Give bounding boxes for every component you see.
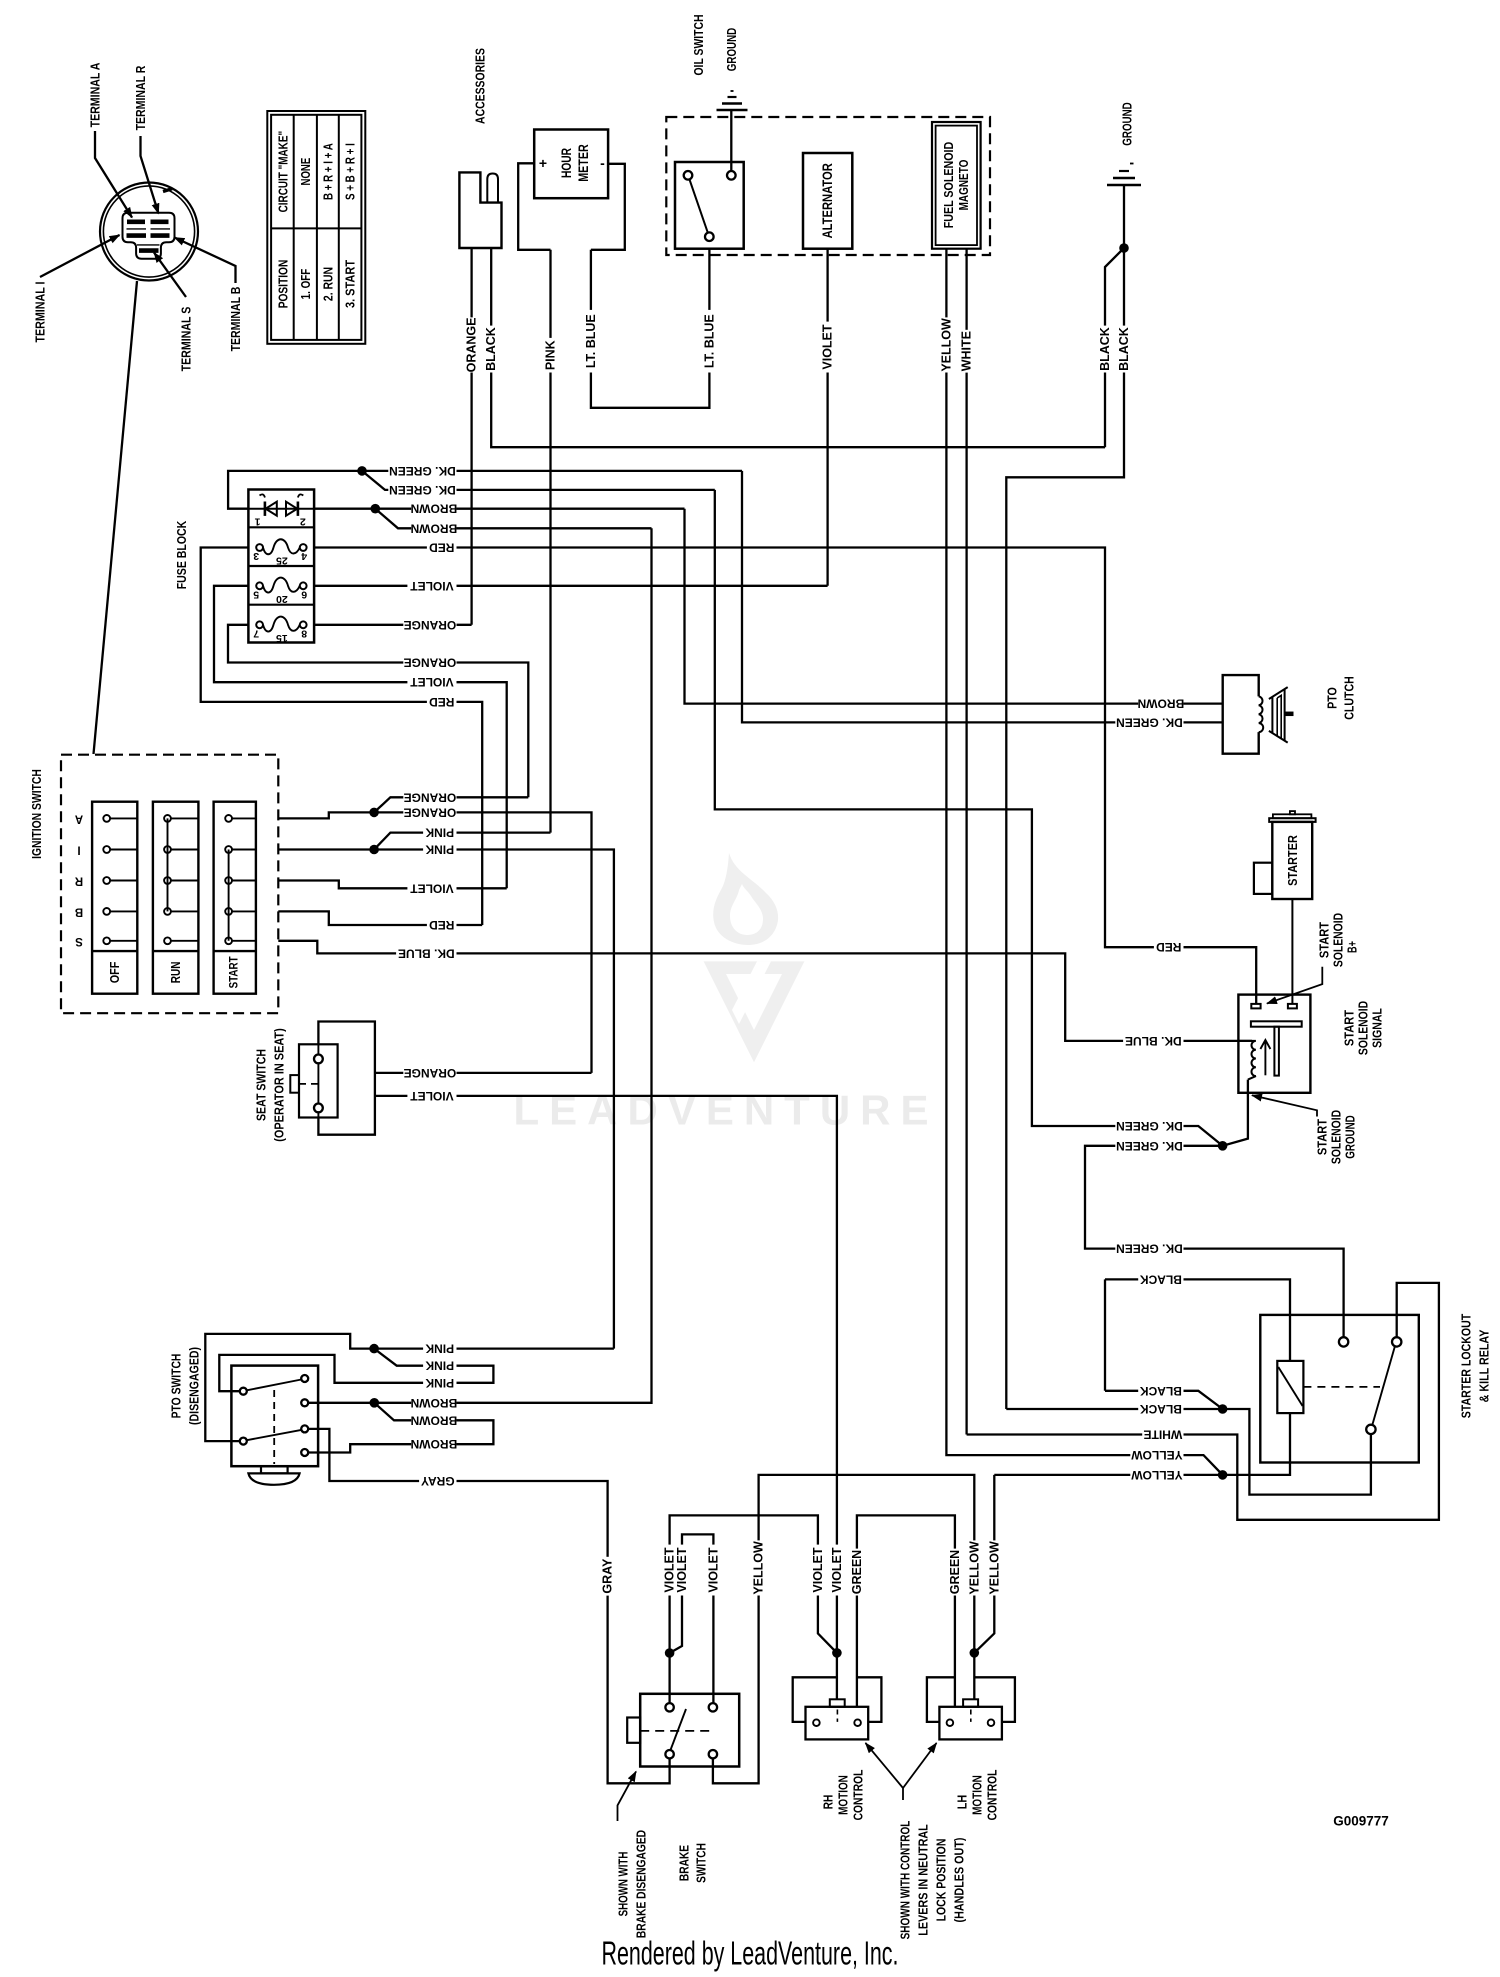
wire VIOLET brake branch U to top-right terminal (670, 1534, 714, 1703)
svg-text:MOTION: MOTION (836, 1775, 851, 1815)
svg-text:DK. GREEN: DK. GREEN (389, 464, 456, 478)
svg-text:ORANGE: ORANGE (465, 317, 479, 372)
wire PINK pto bottom-left terminal loop (205, 1334, 614, 1441)
relay switch bottom terminal (1366, 1425, 1375, 1434)
wire YELLOW LH branch (974, 1475, 994, 1653)
svg-text:DK. GREEN: DK. GREEN (1116, 1119, 1183, 1133)
svg-text:8: 8 (301, 627, 307, 639)
svg-text:WHITE: WHITE (1144, 1428, 1183, 1442)
terminal B blade (151, 233, 170, 238)
svg-text:START: START (1317, 922, 1332, 958)
svg-text:CONTROL: CONTROL (851, 1770, 866, 1821)
wire solenoid coil to dk green ground dot (1223, 1080, 1248, 1146)
svg-text:-: - (600, 155, 605, 171)
svg-text:STARTER LOCKOUT: STARTER LOCKOUT (1459, 1314, 1474, 1419)
relay dashed linkage (1303, 1386, 1380, 1388)
svg-text:PINK: PINK (544, 340, 558, 370)
pto clutch plate (1269, 687, 1288, 699)
svg-text:GRAY: GRAY (601, 1558, 615, 1594)
wire VIOLET brake top-left to RH motion control branch (670, 1515, 837, 1703)
wire BROWN branch row2 U (308, 1403, 493, 1453)
oil switch box (675, 162, 744, 249)
wire BLACK row2 (1104, 1279, 1106, 1390)
svg-text:STARTER: STARTER (1285, 835, 1300, 886)
terminal A blade (127, 220, 145, 225)
start solenoid box (1238, 995, 1310, 1093)
svg-text:BLACK: BLACK (1140, 1402, 1182, 1416)
svg-text:DK. GREEN: DK. GREEN (389, 483, 456, 497)
wire oil switch to ground (730, 110, 732, 171)
svg-text:RED: RED (429, 695, 455, 709)
wire ORANGE fuse8 to accessories (314, 624, 472, 626)
terminal R blade (151, 220, 169, 225)
solenoid coil (1238, 1041, 1256, 1080)
wire DK. GREEN branch row2 (362, 471, 715, 490)
engine module dashed outline (666, 117, 990, 255)
fuse 15 (pins 7-8) (256, 621, 263, 628)
table CIRCUIT MAKE / POSITION (267, 111, 365, 344)
pto switch blades (247, 1380, 301, 1391)
alternator box (803, 153, 852, 249)
svg-text:WHITE: WHITE (960, 331, 974, 371)
fuse block box (248, 490, 314, 643)
svg-text:B+: B+ (1345, 941, 1360, 953)
svg-text:1. OFF: 1. OFF (299, 268, 313, 299)
svg-text:4: 4 (301, 550, 307, 562)
svg-text:Rendered by LeadVenture, Inc.: Rendered by LeadVenture, Inc. (602, 1935, 899, 1972)
solenoid terminal left (1251, 1004, 1260, 1009)
wire BROWN branch row2 (375, 509, 651, 529)
solenoid arrow (1264, 1042, 1266, 1075)
wire BLACK accessories to engine ground (491, 248, 1105, 447)
wire PINK hour meter to ignition (549, 250, 551, 833)
svg-text:ORANGE: ORANGE (404, 1066, 457, 1080)
svg-text:SOLENOID: SOLENOID (1329, 1110, 1344, 1164)
junction dot violet brake (665, 1648, 675, 1658)
engine ground symbol (1107, 184, 1141, 187)
seat switch terminals (314, 1055, 323, 1064)
svg-text:VIOLET: VIOLET (410, 675, 454, 689)
svg-text:SEAT SWITCH: SEAT SWITCH (254, 1049, 269, 1121)
svg-text:OIL SWITCH: OIL SWITCH (691, 14, 706, 75)
svg-text:DK. BLUE: DK. BLUE (398, 946, 455, 960)
svg-text:BROWN: BROWN (411, 1396, 458, 1410)
diode 2 (297, 502, 300, 516)
svg-text:HOUR: HOUR (559, 148, 574, 178)
svg-text:GROUND: GROUND (1120, 102, 1135, 145)
solenoid T plunger (1251, 1021, 1302, 1026)
svg-text:GROUND: GROUND (1343, 1115, 1358, 1158)
diode row wire (248, 508, 314, 510)
seat switch inner box (299, 1044, 338, 1117)
svg-text:BROWN: BROWN (411, 521, 458, 535)
svg-text:START: START (1315, 1119, 1330, 1155)
relay coil (1277, 1361, 1303, 1413)
LH motion control bracket (927, 1677, 955, 1722)
svg-text:PINK: PINK (425, 1376, 454, 1390)
junction dot orange (369, 808, 379, 818)
svg-text:LEADVENTURE: LEADVENTURE (513, 1087, 938, 1134)
svg-text:LEVERS IN NEUTRAL: LEVERS IN NEUTRAL (916, 1824, 931, 1936)
wire ground stem (1123, 185, 1125, 248)
accessories bullet terminal (487, 174, 498, 203)
junction dot pink (369, 845, 379, 855)
junction dot brown (371, 504, 381, 514)
svg-text:SWITCH: SWITCH (694, 1843, 709, 1883)
svg-text:CLUTCH: CLUTCH (1342, 676, 1357, 719)
svg-text:6: 6 (301, 588, 307, 600)
svg-text:CONTROL: CONTROL (985, 1770, 1000, 1821)
svg-text:PINK: PINK (425, 843, 454, 857)
junction dot brown pto (370, 1398, 380, 1408)
svg-text:(OPERATOR IN SEAT): (OPERATOR IN SEAT) (272, 1028, 287, 1142)
wire RED fuse3 to ignition B red (201, 548, 483, 926)
LH motion control switch box (939, 1707, 1002, 1740)
svg-text:A: A (75, 812, 83, 824)
wire VIOLET fuse5 to ignition R violet (214, 586, 507, 889)
wire BLACK ground to accessories black (1105, 248, 1124, 447)
svg-text:PTO: PTO (1325, 687, 1340, 709)
svg-text:R: R (74, 875, 83, 887)
svg-text:NONE: NONE (299, 158, 313, 186)
pto switch left terminals (240, 1388, 247, 1395)
wire VIOLET seat switch to RH motion control (375, 1096, 837, 1699)
junction dot violet RH (832, 1648, 842, 1658)
svg-text:BLACK: BLACK (1117, 327, 1131, 371)
wire BLACK ground to relay black net (1006, 248, 1124, 1409)
hour meter box (534, 130, 608, 199)
svg-text:BROWN: BROWN (411, 502, 458, 516)
svg-text:LT. BLUE: LT. BLUE (702, 314, 716, 368)
svg-text:DK. GREEN: DK. GREEN (1116, 1139, 1183, 1153)
wire DK. GREEN solenoid ground to relay terminal (1085, 1146, 1344, 1337)
svg-text:VIOLET: VIOLET (410, 881, 454, 895)
seat switch plunger tab (290, 1075, 299, 1093)
wire PINK ignition I to pto switch (278, 850, 614, 1349)
svg-text:LT. BLUE: LT. BLUE (584, 314, 598, 368)
svg-text:CIRCUIT "MAKE": CIRCUIT "MAKE" (277, 131, 291, 213)
svg-text:GRAY: GRAY (421, 1474, 455, 1488)
diode 1 (264, 502, 267, 516)
junction dot ground (1119, 243, 1129, 253)
seat switch outer outline (318, 1022, 375, 1135)
svg-text:YELLOW: YELLOW (987, 1541, 1001, 1595)
svg-text:S + B + R + I: S + B + R + I (343, 143, 357, 200)
svg-text:15: 15 (276, 632, 288, 644)
wire BLACK relay coil top (1105, 1279, 1290, 1361)
svg-text:TERMINAL I: TERMINAL I (33, 281, 48, 342)
svg-text:YELLOW: YELLOW (752, 1541, 766, 1595)
svg-text:YELLOW: YELLOW (1131, 1448, 1183, 1462)
svg-text:YELLOW: YELLOW (967, 1541, 981, 1595)
brake switch blade (671, 1709, 687, 1750)
svg-text:TERMINAL A: TERMINAL A (88, 62, 103, 127)
seat switch terminal line (317, 1044, 319, 1117)
seat switch dashed actuator line (299, 1083, 318, 1085)
relay box (1260, 1315, 1419, 1463)
wire VIOLET alternator to fuse 6 (826, 249, 828, 586)
relay switch blade (1372, 1346, 1395, 1425)
wire GREEN RH to LH motion control (857, 1515, 955, 1706)
svg-text:POSITION: POSITION (277, 260, 291, 309)
wire VIOLET fuse6 to alternator (314, 585, 828, 587)
svg-text:TERMINAL B: TERMINAL B (228, 287, 243, 352)
svg-text:S: S (75, 935, 83, 947)
brake switch terminals (665, 1703, 673, 1711)
svg-text:VIOLET: VIOLET (706, 1547, 720, 1593)
svg-text:I: I (77, 844, 80, 856)
wire starter to solenoid (1291, 899, 1293, 1004)
wire PINK branch row2 U (219, 1349, 493, 1392)
relay switch top terminal (1392, 1337, 1401, 1346)
RH motion control bracket (793, 1677, 837, 1722)
oil switch terminals (684, 171, 693, 180)
wire ORANGE branch upper (374, 797, 528, 812)
wire YELLOW brake bottom-right to LH motion control (713, 1475, 974, 1783)
svg-text:DK. BLUE: DK. BLUE (1125, 1034, 1182, 1048)
svg-text:LOCK POSITION: LOCK POSITION (934, 1839, 949, 1922)
svg-text:PINK: PINK (425, 1359, 454, 1373)
svg-text:IGNITION SWITCH: IGNITION SWITCH (29, 769, 44, 859)
svg-text:PTO SWITCH: PTO SWITCH (169, 1354, 184, 1419)
RH motion control switch box (806, 1707, 869, 1740)
leader from connector to ignition switch box (94, 281, 138, 754)
svg-text:BROWN: BROWN (411, 1413, 458, 1427)
wire DK. BLUE ignition S to start solenoid coil (278, 941, 1252, 1041)
junction dot black (1218, 1404, 1228, 1414)
svg-text:VIOLET: VIOLET (410, 579, 454, 593)
wire YELLOW row2 to relay coil bottom (994, 1413, 1290, 1475)
svg-text:SIGNAL: SIGNAL (1370, 1008, 1385, 1048)
ignition position OFF (92, 802, 137, 994)
svg-text:GREEN: GREEN (850, 1550, 864, 1594)
relay terminal dk green (1339, 1337, 1348, 1346)
ignition switch dashed box (61, 755, 278, 1014)
svg-text:ACCESSORIES: ACCESSORIES (473, 48, 488, 124)
terminal S blade (139, 248, 159, 253)
svg-text:G009777: G009777 (1333, 1814, 1389, 1829)
svg-text:ORANGE: ORANGE (404, 805, 457, 819)
wire VIOLET ignition R to fuse5 (278, 881, 506, 889)
svg-text:YELLOW: YELLOW (939, 318, 953, 372)
svg-text:START: START (229, 956, 241, 988)
svg-text:& KILL RELAY: & KILL RELAY (1477, 1329, 1492, 1402)
wire BROWN diode row right (314, 508, 684, 510)
svg-text:1: 1 (255, 516, 261, 528)
brake switch plunger tab (627, 1718, 640, 1743)
svg-text:RED: RED (429, 541, 455, 555)
svg-text:BLACK: BLACK (1140, 1384, 1182, 1398)
wire WHITE magneto to relay switch top (967, 1283, 1439, 1520)
wire LT. BLUE hour meter to oil switch (591, 249, 710, 408)
svg-text:YELLOW: YELLOW (1131, 1468, 1183, 1482)
wire PINK branch to hour meter (374, 833, 550, 850)
pto switch right terminals (301, 1375, 308, 1382)
svg-text:RED: RED (429, 918, 455, 932)
junction dot yellow LH (970, 1648, 980, 1658)
svg-text:TERMINAL R: TERMINAL R (133, 65, 148, 130)
svg-text:B + R + I + A: B + R + I + A (321, 143, 335, 200)
junction dot yellow (1218, 1470, 1228, 1480)
svg-text:RUN: RUN (168, 962, 183, 984)
svg-text:SOLENOID: SOLENOID (1331, 913, 1346, 967)
junction dot dk green solenoid ground (1218, 1141, 1228, 1151)
wire ORANGE seat switch (375, 1072, 592, 1074)
plug detail dashes (127, 228, 147, 230)
oil switch ground symbol (717, 109, 748, 112)
solenoid terminal right (1288, 1004, 1297, 1009)
svg-text:SHOWN WITH: SHOWN WITH (616, 1852, 631, 1917)
junction dot pink pto (369, 1344, 379, 1354)
pto switch box (231, 1366, 318, 1467)
fuse 25 (pins 3-4) (256, 544, 263, 551)
wire DK. GREEN to pto clutch (742, 471, 1223, 723)
wire BLACK ground to relay switch bottom (1006, 1409, 1371, 1495)
wire DK. GREEN fuse diode1 row upper (228, 471, 742, 509)
connector plug outline (123, 213, 175, 259)
svg-text:BRAKE: BRAKE (677, 1845, 692, 1881)
wire RED ignition B to fuse3 (278, 911, 482, 925)
svg-text:RED: RED (1156, 940, 1182, 954)
svg-text:3: 3 (253, 550, 259, 562)
wire WHITE magneto to relay (965, 249, 967, 1435)
svg-text:RH: RH (821, 1795, 836, 1810)
svg-text:BROWN: BROWN (411, 1437, 458, 1451)
svg-text:BLACK: BLACK (484, 327, 498, 371)
svg-text:VIOLET: VIOLET (675, 1547, 689, 1593)
svg-text:ORANGE: ORANGE (404, 790, 457, 804)
pto clutch body with coil (1223, 675, 1259, 754)
svg-text:FUEL SOLENOID: FUEL SOLENOID (941, 142, 956, 229)
svg-text:VIOLET: VIOLET (821, 324, 835, 370)
svg-text:DK. GREEN: DK. GREEN (1116, 1242, 1183, 1256)
ignition position RUN (153, 802, 199, 994)
svg-text:LH: LH (955, 1795, 970, 1810)
svg-text:5: 5 (253, 588, 259, 600)
wire DK. GREEN fuse row2 to solenoid ground net (715, 490, 1223, 1146)
svg-text:ALTERNATOR: ALTERNATOR (820, 163, 835, 238)
wire ORANGE ignition A to seat switch / fuse7 (278, 812, 591, 1073)
wire RED fuse4 to start solenoid B+ (314, 548, 1256, 1004)
svg-text:BLACK: BLACK (1098, 327, 1112, 371)
svg-text:BLACK: BLACK (1140, 1272, 1182, 1286)
brake switch box (640, 1694, 739, 1767)
svg-text:GROUND: GROUND (724, 28, 739, 71)
svg-text:MOTION: MOTION (970, 1775, 985, 1815)
starter motor (1290, 811, 1295, 814)
wire ORANGE fuse7 to ignition A orange (228, 625, 528, 798)
svg-text:BROWN: BROWN (1138, 697, 1185, 711)
svg-text:ORANGE: ORANGE (404, 656, 457, 670)
fuel solenoid magneto box (932, 122, 981, 249)
svg-text:+: + (539, 155, 547, 171)
svg-text:2. RUN: 2. RUN (321, 267, 335, 301)
svg-text:VIOLET: VIOLET (830, 1547, 844, 1593)
watermark LeadVenture logo and text (decorative) (713, 853, 778, 945)
oil switch blade (690, 180, 708, 233)
svg-text:(DISENGAGED): (DISENGAGED) (187, 1347, 202, 1425)
svg-text:(HANDLES OUT): (HANDLES OUT) (952, 1838, 967, 1923)
svg-text:PINK: PINK (425, 826, 454, 840)
ignition position START (214, 802, 256, 994)
svg-text:OFF: OFF (107, 962, 122, 984)
pto clutch shaft stub (1284, 712, 1293, 717)
wire GRAY pto terminal3 to brake switch (308, 1429, 669, 1783)
svg-text:7: 7 (253, 627, 259, 639)
svg-text:B: B (75, 905, 83, 917)
svg-text:VIOLET: VIOLET (410, 1089, 454, 1103)
wire ORANGE accessories to fuse 8 (470, 248, 472, 625)
wire YELLOW magneto to relay (946, 249, 1222, 1475)
svg-text:MAGNETO: MAGNETO (956, 160, 971, 211)
accessories connector body (459, 172, 501, 248)
svg-text:25: 25 (276, 555, 288, 567)
brake switch dashed line (640, 1730, 710, 1732)
wire BROWN to pto clutch (685, 509, 1223, 704)
svg-text:ORANGE: ORANGE (404, 618, 457, 632)
ignition switch connector face (circle) (100, 183, 198, 281)
svg-text:METER: METER (576, 144, 591, 182)
svg-text:VIOLET: VIOLET (811, 1547, 825, 1593)
svg-text:3. START: 3. START (343, 260, 357, 308)
pto switch mushroom button (261, 1466, 288, 1473)
svg-text:DK. GREEN: DK. GREEN (1116, 715, 1183, 729)
hour meter connector outline left (518, 163, 550, 250)
svg-text:2: 2 (300, 516, 306, 528)
fuse 20 (pins 5-6) (256, 582, 263, 589)
junction dot dk green (357, 466, 367, 476)
wire BROWN pto terminal2 to fuse brown (308, 528, 651, 1403)
svg-text:BRAKE DISENGAGED: BRAKE DISENGAGED (634, 1830, 649, 1938)
pto switch dashed center line (273, 1390, 275, 1464)
svg-text:PINK: PINK (425, 1342, 454, 1356)
hour meter connector outline right (591, 164, 625, 250)
svg-text:SOLENOID: SOLENOID (1356, 1001, 1371, 1055)
svg-text:20: 20 (276, 593, 288, 605)
svg-text:FUSE BLOCK: FUSE BLOCK (174, 520, 189, 589)
svg-text:SHOWN WITH CONTROL: SHOWN WITH CONTROL (898, 1821, 913, 1940)
wire YELLOW row1 magneto (1130, 1449, 1183, 1462)
terminal I blade (127, 233, 147, 238)
svg-text:TERMINAL S: TERMINAL S (179, 306, 194, 371)
svg-text:GREEN: GREEN (948, 1550, 962, 1594)
svg-text:START: START (1342, 1010, 1357, 1046)
